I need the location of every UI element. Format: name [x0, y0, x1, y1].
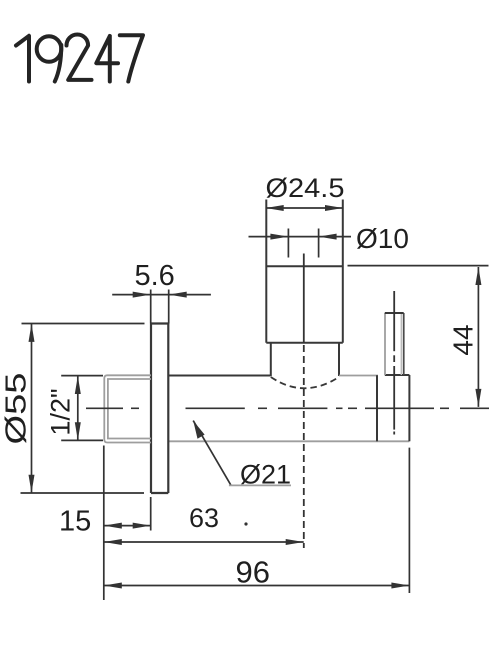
- right end cap: [377, 375, 409, 441]
- threaded nut inner outline (grey): [108, 379, 151, 439]
- svg-text:44: 44: [448, 324, 479, 355]
- outlet pipe (right small pipe): [384, 313, 386, 375]
- hidden intersection arc (dashed): [271, 377, 339, 388]
- stray dot: [244, 522, 247, 525]
- dimension 15: [104, 446, 151, 601]
- svg-text:15: 15: [59, 506, 91, 538]
- dimension Ø24.5: [266, 207, 343, 209]
- valve body top edge: [168, 375, 270, 377]
- horizontal center line of body: [86, 407, 489, 409]
- dimension 63: [104, 541, 304, 543]
- dimension 44: [348, 266, 489, 407]
- dimension Ø10: [249, 229, 352, 258]
- svg-text:Ø10: Ø10: [356, 223, 409, 254]
- vertical center line of outlet pipe: [393, 291, 395, 435]
- svg-text:5.6: 5.6: [135, 260, 175, 292]
- threaded nut outer outline (grey): [104, 375, 151, 442]
- part number 19247: [16, 35, 143, 82]
- neck below cylinder: [271, 343, 339, 376]
- svg-text:Ø21: Ø21: [240, 460, 291, 490]
- wall flange: [151, 324, 168, 494]
- svg-text:Ø55: Ø55: [1, 373, 33, 445]
- valve body bottom edge: [168, 440, 409, 442]
- svg-text:Ø24.5: Ø24.5: [266, 173, 345, 203]
- leader Ø21: [193, 421, 231, 485]
- top inlet cylinder (Ø24.5 port): [266, 200, 343, 343]
- svg-text:96: 96: [236, 555, 270, 590]
- svg-text:1/2": 1/2": [46, 388, 76, 435]
- dimension 5.6: [112, 290, 211, 324]
- dimension 96: [104, 448, 410, 593]
- svg-text:63: 63: [189, 503, 219, 533]
- vertical center line of top port: [303, 254, 305, 344]
- dimension Ø55: [21, 324, 145, 494]
- dimension 1/2": [61, 376, 103, 441]
